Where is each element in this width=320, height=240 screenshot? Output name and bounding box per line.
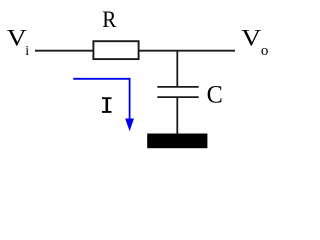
wire from resistor to Vo (139, 50, 235, 52)
resistor R (93, 41, 138, 59)
current label I (102, 97, 112, 113)
node Vi label (7, 26, 29, 59)
current arrow I (73, 78, 129, 120)
svg-text:R: R (102, 6, 116, 32)
svg-text:V: V (241, 26, 262, 51)
wire from capacitor to ground (176, 98, 178, 134)
node Vo label (241, 26, 268, 59)
wire from Vi to resistor (35, 50, 94, 52)
svg-text:C: C (207, 81, 223, 108)
svg-text:o: o (261, 43, 269, 59)
capacitor C (157, 87, 198, 97)
ground (147, 134, 207, 149)
svg-text:i: i (25, 44, 29, 59)
wire from junction down to capacitor (176, 50, 178, 87)
